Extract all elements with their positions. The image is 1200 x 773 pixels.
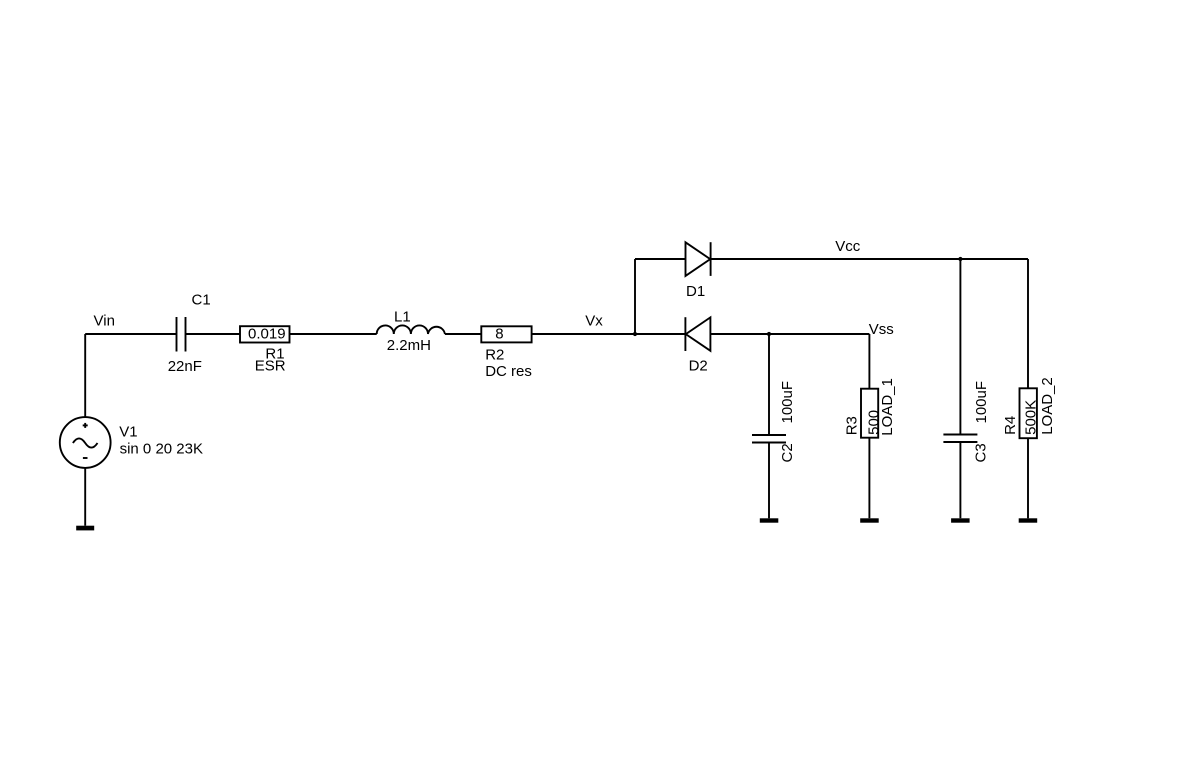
wire Vcc down to C3 xyxy=(959,259,961,435)
ground C3 xyxy=(951,518,970,522)
svg-text:0.019: 0.019 xyxy=(248,325,286,342)
svg-text:Vx: Vx xyxy=(585,313,603,330)
svg-text:22nF: 22nF xyxy=(168,358,202,375)
junction C2 tap xyxy=(767,332,771,336)
resistor R1 xyxy=(240,326,290,342)
capacitor C3 xyxy=(943,435,977,443)
svg-text:DC res: DC res xyxy=(485,363,532,380)
junction C3 tap xyxy=(958,257,962,261)
svg-text:D1: D1 xyxy=(686,283,705,300)
voltage source V1 xyxy=(60,417,111,468)
resistor R3 xyxy=(861,389,878,438)
svg-text:LOAD_2: LOAD_2 xyxy=(1039,377,1056,435)
svg-text:D2: D2 xyxy=(689,357,708,374)
ground R4 xyxy=(1019,518,1037,522)
svg-text:L1: L1 xyxy=(394,309,411,326)
ground R3 xyxy=(860,518,879,522)
svg-text:8: 8 xyxy=(495,326,503,343)
svg-text:LOAD_1: LOAD_1 xyxy=(879,378,896,436)
wire C3 to ground xyxy=(959,442,961,518)
wire R4 to ground xyxy=(1027,438,1029,518)
wire C1 to R1 xyxy=(186,333,241,335)
wire C2 to ground xyxy=(768,443,770,519)
wire R1 to L1 xyxy=(290,333,377,335)
svg-text:R2: R2 xyxy=(485,346,504,363)
wire V1 top vertical xyxy=(84,334,86,417)
junction Vx xyxy=(633,332,637,336)
wire R3 to ground xyxy=(868,438,870,519)
svg-text:2.2mH: 2.2mH xyxy=(387,337,431,354)
wire Vss down to R3 xyxy=(868,334,870,389)
wire D2 to Vss corner xyxy=(710,333,869,335)
wire to D1 anode xyxy=(635,258,686,260)
svg-text:C3: C3 xyxy=(973,443,990,462)
resistor R2 xyxy=(481,326,531,342)
svg-text:sin 0 20 23K: sin 0 20 23K xyxy=(120,440,203,457)
wire down to C2 xyxy=(768,334,770,435)
svg-text:Vss: Vss xyxy=(869,321,894,338)
inductor L1 xyxy=(377,325,445,334)
svg-text:V1: V1 xyxy=(119,423,137,440)
diode D1 xyxy=(686,242,711,276)
wire V1 bottom vertical xyxy=(84,468,86,526)
resistor R4 xyxy=(1020,388,1037,438)
svg-text:100uF: 100uF xyxy=(973,381,990,424)
svg-text:100uF: 100uF xyxy=(779,381,796,424)
svg-text:R3: R3 xyxy=(844,416,861,435)
ground V1 xyxy=(76,526,94,531)
capacitor C2 xyxy=(752,435,786,443)
capacitor C1 xyxy=(177,317,186,352)
svg-text:C2: C2 xyxy=(779,443,796,462)
wire Vin horizontal xyxy=(85,333,176,335)
wire Vx branch vertical xyxy=(634,259,636,334)
svg-text:C1: C1 xyxy=(192,291,211,308)
svg-text:Vcc: Vcc xyxy=(835,238,861,255)
diode D2 xyxy=(685,317,710,351)
wire Vcc rail xyxy=(711,258,1028,260)
wire L1 to R2 xyxy=(445,333,481,335)
svg-text:R4: R4 xyxy=(1002,416,1019,435)
svg-text:Vin: Vin xyxy=(94,313,115,330)
wire Vcc down to R4 xyxy=(1027,259,1029,388)
svg-text:500K: 500K xyxy=(1022,400,1039,435)
svg-text:ESR: ESR xyxy=(255,358,286,375)
wire R2 to D2 xyxy=(532,333,686,335)
ground C2 xyxy=(760,518,779,522)
